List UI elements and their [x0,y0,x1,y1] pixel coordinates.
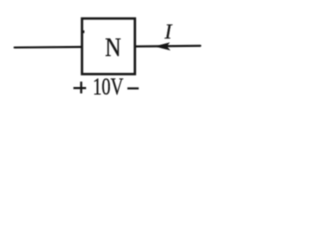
svg-text:I: I [164,19,173,43]
polarity minus sign [127,87,138,89]
wire right lead [136,45,201,48]
svg-text:10V: 10V [93,73,124,100]
junction nub on left edge of box [83,30,84,33]
current arrowhead (pointing left into box) [154,42,170,50]
svg-text:N: N [105,34,121,63]
wire left lead [15,46,82,49]
polarity plus sign [73,82,86,94]
network box N [82,19,135,75]
